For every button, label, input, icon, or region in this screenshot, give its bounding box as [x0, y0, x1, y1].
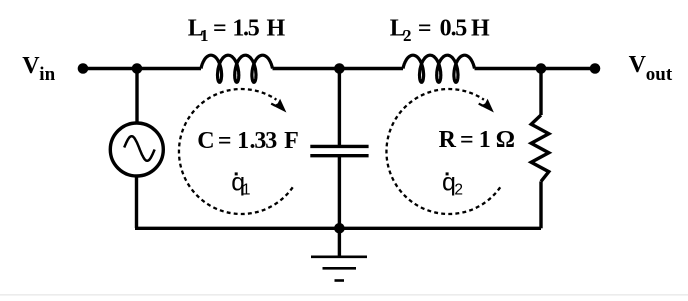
node Vout terminal dot [590, 63, 601, 74]
wire resistor branch top [539, 69, 542, 116]
svg-text:V: V [629, 52, 647, 78]
node source junction dot [132, 63, 143, 74]
node ground junction dot [334, 223, 345, 234]
svg-text:1: 1 [242, 181, 251, 198]
svg-text:5: 5 [248, 15, 260, 41]
svg-text:1: 1 [200, 26, 209, 45]
wire top horizontal [83, 67, 201, 70]
ground bar 2 [323, 267, 357, 270]
svg-text:5: 5 [455, 15, 467, 41]
q1 overdot [235, 172, 238, 175]
wire capacitor branch bottom [338, 156, 341, 229]
node Vin terminal dot [78, 63, 89, 74]
wire source branch bottom [135, 176, 138, 228]
wire bottom horizontal [135, 227, 541, 230]
svg-text:H: H [267, 15, 286, 41]
inductor L1 [201, 55, 273, 82]
svg-text:3: 3 [265, 128, 277, 154]
svg-text:V: V [22, 53, 40, 79]
wire source branch top [135, 69, 138, 124]
ground bar 3 [335, 279, 345, 282]
svg-text:C: C [197, 128, 214, 154]
wire capacitor branch top [338, 69, 341, 147]
mesh current loop 2 arrowhead [481, 99, 494, 113]
svg-text:=: = [213, 15, 227, 41]
wire top right [475, 67, 596, 70]
ground stem [338, 228, 341, 256]
svg-text:=: = [460, 127, 474, 153]
svg-text:in: in [39, 64, 55, 85]
page divider line [0, 294, 688, 296]
resistor R zigzag [531, 115, 549, 181]
capacitor C bottom plate [310, 154, 368, 157]
mesh current loop 1 arrowhead [273, 99, 286, 113]
source V1 circle [110, 123, 163, 176]
ground bar 1 [311, 255, 367, 258]
svg-text:2: 2 [454, 181, 463, 198]
node capacitor top junction dot [334, 63, 345, 74]
svg-text:F: F [284, 128, 299, 154]
q2 overdot [446, 172, 449, 175]
svg-text:H: H [471, 15, 490, 41]
wire resistor branch bottom [539, 181, 542, 228]
mesh current loop 2 dashed arc [386, 89, 500, 214]
svg-text:1: 1 [237, 128, 249, 154]
inductor L2 [403, 55, 475, 82]
svg-text:R: R [439, 127, 457, 153]
svg-text:=: = [218, 128, 232, 154]
svg-text:out: out [646, 64, 673, 85]
svg-text:1: 1 [479, 127, 491, 153]
mesh current loop 1 last dash [271, 104, 275, 106]
svg-text:2: 2 [403, 26, 412, 45]
mesh current loop 1 dashed arc [179, 89, 293, 214]
capacitor C top plate [310, 145, 368, 148]
svg-text:Ω: Ω [496, 127, 515, 153]
source sine symbol [124, 136, 155, 161]
node resistor top junction dot [536, 63, 547, 74]
wire top middle [273, 67, 404, 70]
mesh current loop 2 last dash [479, 104, 483, 106]
svg-text:=: = [418, 15, 432, 41]
